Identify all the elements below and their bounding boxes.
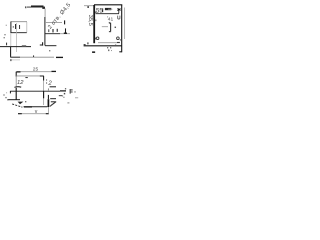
width dim left arrow: [16, 71, 21, 73]
plan view top edge: [16, 75, 44, 77]
depth dim text dots: [107, 47, 112, 51]
bottom edge right arrow: [60, 90, 66, 92]
colon marks right of plan view: [46, 79, 47, 80]
svg-text:41: 41: [108, 16, 114, 22]
right dim vertical connector dark: [47, 99, 49, 107]
foot left lip: [84, 44, 86, 46]
terminal dot in coil box: [13, 26, 14, 27]
side view body bottom line: [98, 42, 120, 44]
front view top yoke edge: [27, 5, 45, 8]
small text dot left margin upper: [6, 25, 7, 26]
depth dim left arrow: [92, 51, 95, 53]
terminal block boss: [105, 8, 111, 10]
dark tick on body bottom line: [117, 41, 120, 43]
side view drop shadow line: [124, 8, 126, 40]
extension line below coil box left: [10, 33, 12, 46]
plan view bottom edge long: [10, 90, 60, 92]
mounting foot line: [84, 45, 122, 47]
bottom line right arrow: [56, 56, 63, 58]
underline dash right of plan view: [50, 86, 56, 88]
dot mid left inner: [106, 15, 109, 18]
dim line right of lamination mid: [45, 32, 70, 35]
svg-text:v: v: [35, 109, 38, 115]
dot below label: [109, 22, 110, 23]
bottom dim left dark dash: [18, 113, 22, 115]
terminal cover line inside side view: [96, 13, 120, 15]
plan view right edge: [43, 76, 45, 105]
boss shading dash: [108, 8, 112, 10]
dot right of bracket: [115, 27, 116, 28]
depth dim right arrow tick: [119, 51, 121, 53]
small mark left inner: [95, 19, 96, 21]
svg-text:2: 2: [47, 81, 52, 87]
base plate left edge: [10, 47, 12, 57]
right dim stack tick under plan: [47, 88, 49, 90]
hole callout marks: [65, 88, 66, 89]
mark on left edge bottom: [95, 38, 96, 40]
terminal slot 1 in coil box: [15, 24, 17, 29]
comma after circle: [120, 39, 121, 40]
connector gray lower: [47, 107, 49, 114]
height dim bottom arrow: [87, 43, 88, 45]
right dim dash level2: [51, 101, 56, 103]
svg-text:25: 25: [33, 66, 39, 72]
left margin diagonal text dots lower: [3, 92, 8, 100]
side view top edge: [94, 4, 122, 6]
foot tab line below plan view: [8, 99, 20, 101]
plan view left edge: [15, 71, 17, 100]
tick above bottom line: [33, 55, 35, 57]
front view right lamination edge: [44, 9, 46, 18]
bottom dim line y113: [18, 113, 49, 115]
lip start tick: [10, 59, 11, 61]
faint lip below base left: [11, 59, 20, 61]
mid dim text specks: [48, 29, 49, 32]
width dim line above plan view: [16, 71, 56, 73]
leader arrow dot left of top edge: [25, 6, 26, 8]
coil box outline: [11, 22, 28, 34]
screw terminal symbol top right: [117, 8, 120, 13]
svg-text:12: 12: [17, 80, 24, 86]
arrowhead v below tab: [18, 102, 24, 105]
left margin arrow tick: [6, 43, 8, 46]
side view right edge: [121, 5, 123, 52]
bottom dim right tick: [46, 113, 49, 115]
base plate bottom line: [10, 56, 54, 58]
screw shank tick: [102, 8, 104, 12]
right text dash: [59, 95, 62, 97]
dot below flange: [49, 50, 50, 51]
tick stop on mid dim: [65, 28, 67, 33]
step mark right of base top: [40, 42, 43, 45]
small mark left inner top: [95, 11, 96, 13]
centre dash inside side view: [102, 26, 108, 28]
level dim line y106: [24, 106, 48, 108]
big bracket glyph centre: [109, 23, 111, 33]
height dim extension line top: [84, 5, 94, 7]
tick above foot line right: [115, 43, 116, 46]
dim line right of coil box: [45, 22, 62, 24]
leader diagonal into level line: [12, 104, 22, 107]
foot screw dot: [87, 43, 88, 44]
second oblique mark: [50, 104, 53, 106]
terminal slot 2 in coil box: [19, 25, 21, 29]
right dim stack vertical tick: [47, 95, 49, 99]
opposing arrowheads bump on base top line: [22, 45, 26, 47]
height dim top arrow: [87, 6, 89, 8]
right dim dash level1: [50, 98, 56, 100]
top edge dark dashes: [25, 77, 27, 79]
screw hole circle lower left: [96, 37, 99, 40]
screw hole circle lower right: [117, 37, 120, 40]
callout dash: [67, 102, 69, 104]
dot beside arrowhead: [25, 101, 26, 102]
base plate top line: [0, 46, 31, 48]
dark tick in annotation cluster: [64, 20, 66, 24]
side view left edge thick: [93, 5, 95, 43]
underline curve below 12: [14, 86, 21, 89]
flange line right of lamination: [45, 45, 56, 47]
rotated dim text left margin: [4, 34, 5, 35]
hole callout P glyph: [69, 89, 71, 94]
width dim right arrow: [52, 70, 57, 72]
centerline below coil box: [16, 23, 18, 52]
svg-text:35,5: 35,5: [87, 15, 93, 26]
top corner blob: [42, 7, 45, 9]
oblique tick on connector: [50, 102, 56, 107]
u glyph below terminal: [118, 16, 120, 20]
bottom edge left corner drop: [9, 91, 11, 93]
